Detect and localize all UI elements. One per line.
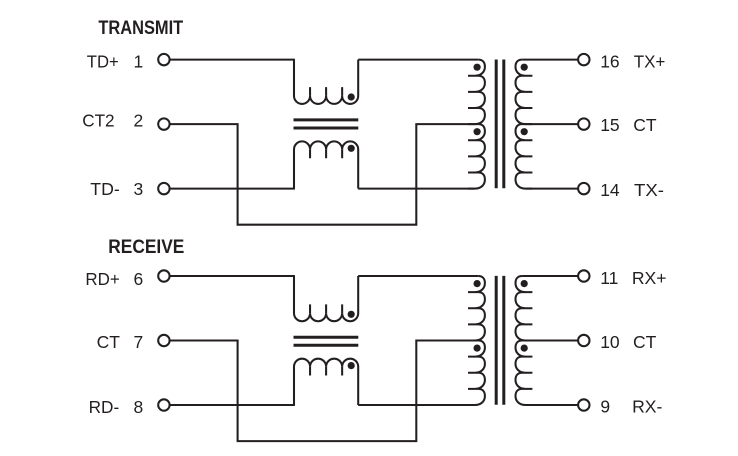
phasing dot choke winding B bbox=[348, 145, 355, 152]
svg-text:1: 1 bbox=[134, 52, 144, 72]
svg-text:CT: CT bbox=[633, 115, 657, 135]
pin 8 terminal (RD-) bbox=[158, 399, 169, 410]
common-mode choke winding B (receive) bbox=[294, 359, 358, 405]
wire pin 7 center-tap net bbox=[170, 341, 479, 442]
pin 11 terminal (RX+) bbox=[578, 270, 589, 281]
phasing dot secondary winding 2 bbox=[521, 128, 528, 135]
wire pin 3 to choke bbox=[170, 188, 295, 190]
common-mode choke winding A (receive) bbox=[294, 276, 358, 321]
wire pin 1 to choke bbox=[170, 59, 295, 61]
phasing dot choke winding A bbox=[348, 311, 355, 318]
phasing dot secondary winding 1 bbox=[521, 64, 528, 71]
choke winding A turn separators bbox=[310, 87, 342, 96]
svg-text:RD-: RD- bbox=[89, 397, 120, 417]
svg-text:15: 15 bbox=[600, 115, 619, 135]
wire choke to primary bottom bbox=[358, 188, 475, 190]
phasing dot primary winding 1 bbox=[474, 64, 481, 71]
phasing dot choke winding B bbox=[348, 362, 355, 369]
svg-text:RX+: RX+ bbox=[632, 268, 667, 288]
transformer primary winding 1 bbox=[468, 60, 485, 125]
svg-text:RECEIVE: RECEIVE bbox=[108, 236, 184, 258]
wire secondary center tap to pin 15 bbox=[522, 123, 578, 125]
phasing dot secondary winding 2 bbox=[521, 345, 528, 352]
svg-text:8: 8 bbox=[134, 397, 144, 417]
wire pin 6 to choke bbox=[170, 275, 295, 277]
pin 6 terminal (RD+) bbox=[158, 270, 169, 281]
common-mode choke winding A (transmit) bbox=[294, 60, 358, 104]
wire secondary center tap to pin 10 bbox=[522, 339, 578, 341]
svg-text:11: 11 bbox=[600, 268, 618, 288]
pin 2 terminal (center tap) bbox=[158, 118, 169, 129]
phasing dot primary winding 2 bbox=[474, 345, 481, 352]
choke core bbox=[294, 120, 359, 128]
transformer primary winding 2 bbox=[468, 124, 485, 189]
wire pin 8 to choke bbox=[170, 404, 295, 406]
phasing dot secondary winding 1 bbox=[521, 280, 528, 287]
pin 3 terminal (TD-) bbox=[158, 183, 169, 194]
wire choke to primary bottom bbox=[358, 404, 475, 406]
phasing dot choke winding A bbox=[348, 93, 355, 100]
svg-text:RD+: RD+ bbox=[85, 269, 119, 289]
pin 7 terminal (center tap) bbox=[158, 335, 169, 346]
pin 15 terminal (CT) bbox=[578, 118, 589, 129]
pin 14 terminal (TX-) bbox=[578, 183, 589, 194]
svg-text:CT2: CT2 bbox=[82, 111, 114, 131]
pin 1 terminal (TD+) bbox=[158, 54, 169, 65]
choke winding B turn separators bbox=[310, 149, 342, 158]
svg-text:TX+: TX+ bbox=[634, 51, 666, 71]
svg-text:10: 10 bbox=[600, 332, 620, 352]
common-mode choke winding B (transmit) bbox=[294, 141, 358, 188]
svg-text:CT: CT bbox=[633, 332, 657, 352]
svg-text:6: 6 bbox=[134, 269, 144, 289]
transformer secondary winding 2 bbox=[516, 124, 533, 189]
svg-text:7: 7 bbox=[134, 332, 144, 352]
transformer primary winding 1 bbox=[468, 276, 485, 341]
svg-text:TD-: TD- bbox=[90, 179, 120, 199]
phasing dot primary winding 2 bbox=[474, 128, 481, 135]
svg-text:TRANSMIT: TRANSMIT bbox=[98, 17, 183, 39]
transformer primary winding 2 bbox=[468, 341, 485, 406]
svg-text:RX-: RX- bbox=[632, 396, 662, 416]
pin 9 terminal (RX-) bbox=[578, 399, 589, 410]
transformer secondary winding 1 bbox=[516, 276, 533, 341]
wire secondary bottom to pin 9 bbox=[526, 404, 578, 406]
pin 10 terminal (CT) bbox=[578, 335, 589, 346]
svg-text:2: 2 bbox=[134, 111, 144, 131]
svg-text:9: 9 bbox=[600, 396, 610, 416]
choke core bbox=[294, 337, 359, 345]
transformer core bbox=[496, 60, 504, 189]
transformer secondary winding 2 bbox=[516, 341, 533, 406]
wire pin 2 center-tap net bbox=[170, 124, 479, 225]
wire choke to primary top bbox=[358, 59, 478, 61]
wire secondary top to pin 16 bbox=[522, 59, 578, 61]
svg-text:16: 16 bbox=[600, 51, 619, 71]
choke winding A turn separators bbox=[310, 304, 342, 313]
svg-text:14: 14 bbox=[600, 180, 620, 200]
svg-text:CT: CT bbox=[97, 332, 121, 352]
choke winding B turn separators bbox=[310, 367, 342, 376]
wire secondary top to pin 11 bbox=[522, 275, 578, 277]
transformer core bbox=[496, 276, 504, 405]
svg-text:TD+: TD+ bbox=[87, 52, 119, 72]
svg-text:3: 3 bbox=[134, 179, 144, 199]
wire choke to primary top bbox=[358, 275, 478, 277]
svg-text:TX-: TX- bbox=[634, 180, 664, 200]
wire secondary bottom to pin 14 bbox=[526, 188, 578, 190]
phasing dot primary winding 1 bbox=[474, 280, 481, 287]
pin 16 terminal (TX+) bbox=[578, 54, 589, 65]
transformer secondary winding 1 bbox=[516, 60, 533, 125]
